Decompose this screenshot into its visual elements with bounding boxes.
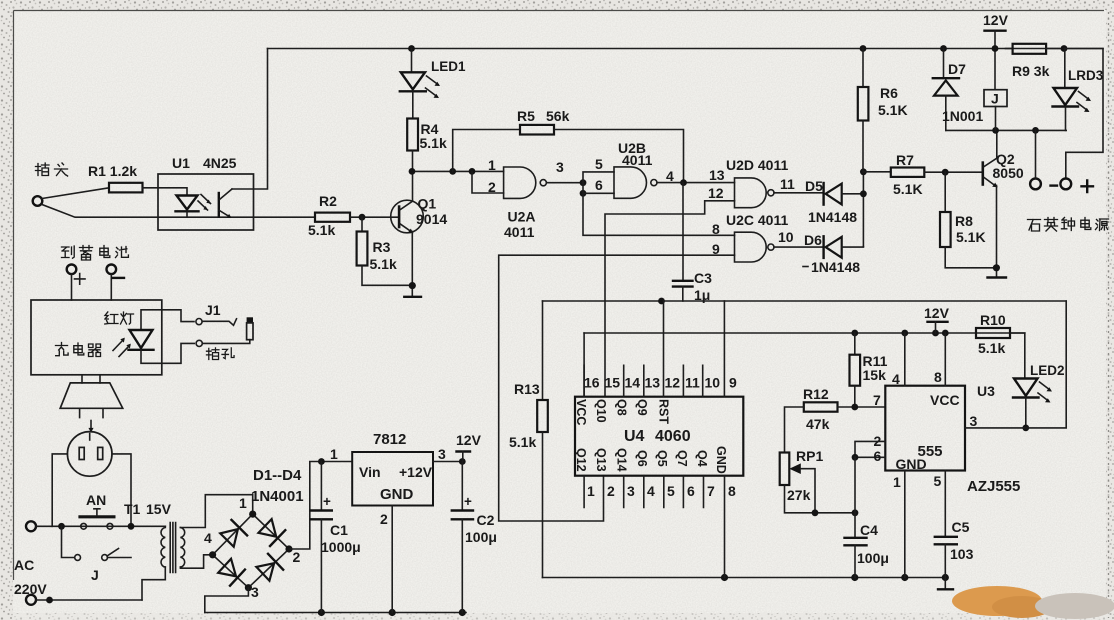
svg-text:4060: 4060 bbox=[655, 428, 691, 445]
ground rail PSU bbox=[205, 609, 466, 616]
svg-text:5.1k: 5.1k bbox=[370, 256, 397, 272]
svg-text:16: 16 bbox=[584, 375, 600, 391]
svg-text:C4: C4 bbox=[860, 522, 878, 538]
wire 555 pin8 to rail bbox=[934, 333, 945, 386]
resistor R5 56k feedback bbox=[453, 108, 684, 182]
svg-text:J: J bbox=[91, 567, 99, 583]
svg-text:3: 3 bbox=[556, 159, 564, 175]
svg-text:Q5: Q5 bbox=[655, 450, 669, 467]
node D5 / R6 / R7 bbox=[860, 168, 867, 246]
svg-text:U4: U4 bbox=[624, 428, 645, 445]
svg-text:15k: 15k bbox=[863, 367, 887, 383]
svg-text:15V: 15V bbox=[146, 501, 172, 517]
svg-text:+: + bbox=[323, 494, 331, 509]
wire R3 bottom to emitter node bbox=[362, 266, 412, 286]
power 12V logic rail stub bbox=[924, 305, 950, 333]
resistor R12 bbox=[785, 386, 886, 453]
terminal - (quartz clock) bbox=[1030, 130, 1041, 189]
node Q1 collector / R4 / U2A input bbox=[409, 168, 504, 175]
svg-text:8: 8 bbox=[712, 221, 720, 237]
svg-text:AZJ555: AZJ555 bbox=[967, 478, 1020, 495]
svg-text:3: 3 bbox=[970, 413, 978, 429]
svg-text:10: 10 bbox=[705, 375, 721, 391]
ground tick rail end bbox=[938, 578, 953, 590]
svg-text:1N4148: 1N4148 bbox=[808, 209, 857, 225]
svg-text:J1: J1 bbox=[205, 302, 221, 318]
bridge rectifier D1-D4 1N4001 bbox=[204, 467, 304, 600]
wire VCC pin16 to 12V rail bbox=[583, 333, 585, 397]
wire Q1 emitter to ground bbox=[409, 232, 416, 296]
wire socket left to AC line bbox=[52, 454, 67, 526]
svg-text:100μ: 100μ bbox=[465, 529, 497, 545]
svg-text:U2C 4011: U2C 4011 bbox=[726, 212, 788, 228]
svg-text:Q10: Q10 bbox=[594, 399, 608, 423]
terminal + (quartz clock) bbox=[1060, 179, 1071, 190]
wire Q1 collector to node bbox=[412, 171, 414, 201]
svg-text:47k: 47k bbox=[806, 416, 830, 432]
wire R1 to U1 LED anode bbox=[143, 188, 188, 196]
svg-text:1: 1 bbox=[239, 495, 247, 511]
svg-text:D1--D4: D1--D4 bbox=[253, 467, 302, 484]
label AC 220V bbox=[14, 557, 47, 597]
svg-text:5.1k: 5.1k bbox=[308, 222, 335, 238]
svg-text:1: 1 bbox=[488, 157, 496, 173]
svg-text:3: 3 bbox=[438, 446, 446, 462]
svg-text:5.1K: 5.1K bbox=[956, 229, 986, 245]
IC U4 4060 bbox=[575, 397, 743, 476]
svg-text:AN: AN bbox=[86, 492, 106, 508]
svg-text:R5: R5 bbox=[517, 108, 535, 124]
svg-text:13: 13 bbox=[709, 167, 725, 183]
wire 555 pin7 node bbox=[873, 392, 881, 408]
svg-text:6: 6 bbox=[687, 483, 695, 499]
wire U2D pin12 from U4 Q10 bbox=[605, 201, 735, 397]
svg-text:Q6: Q6 bbox=[635, 450, 649, 467]
svg-text:4: 4 bbox=[892, 371, 900, 387]
svg-text:5.1k: 5.1k bbox=[509, 434, 536, 450]
wire socket right to AC line bbox=[112, 454, 131, 526]
svg-text:Q8: Q8 bbox=[615, 399, 629, 416]
switch J1 contacts bbox=[196, 302, 237, 347]
relay contact J bbox=[62, 526, 132, 583]
svg-text:5.1k: 5.1k bbox=[420, 135, 447, 151]
svg-text:10: 10 bbox=[778, 229, 794, 245]
svg-text:GND: GND bbox=[896, 456, 927, 472]
charger box 充电器 bbox=[31, 300, 162, 375]
wire R2 to Q1 base bbox=[350, 214, 398, 221]
capacitor C3 1u bbox=[673, 183, 712, 303]
minus mark bbox=[1051, 184, 1058, 186]
svg-text:GND: GND bbox=[380, 486, 414, 503]
resistor R7 bbox=[863, 152, 981, 197]
wire 555 pin1 to ground rail bbox=[893, 471, 905, 578]
terminal battery + bbox=[67, 265, 85, 301]
svg-text:5.1k: 5.1k bbox=[978, 340, 1005, 356]
svg-text:R8: R8 bbox=[955, 213, 973, 229]
svg-text:Q12: Q12 bbox=[574, 448, 588, 472]
capacitor C4 100u bbox=[845, 513, 889, 578]
svg-text:RP1: RP1 bbox=[796, 448, 823, 464]
opto-coupler U1 4N25 bbox=[158, 155, 254, 230]
svg-text:4N25: 4N25 bbox=[203, 155, 237, 171]
svg-text:+12V: +12V bbox=[399, 464, 433, 480]
svg-text:4: 4 bbox=[647, 483, 655, 499]
wire AC line to T1 bbox=[36, 523, 165, 530]
resistor R9 3k bbox=[1006, 44, 1068, 79]
op-amp U2B 4011 NAND bbox=[595, 140, 674, 198]
terminal battery - bbox=[107, 265, 125, 301]
capacitor C5 103 bbox=[934, 471, 974, 578]
svg-text:R10: R10 bbox=[980, 312, 1006, 328]
wire U1 collector to top rail bbox=[232, 49, 268, 190]
svg-text:1N4148: 1N4148 bbox=[811, 259, 860, 275]
resistor R2 bbox=[308, 193, 350, 238]
svg-text:1N4001: 1N4001 bbox=[251, 488, 304, 505]
plug-to-socket arrow bbox=[88, 421, 93, 433]
wire bridge output 2 to +12V unregulated bbox=[289, 458, 352, 549]
svg-text:RST: RST bbox=[657, 399, 671, 424]
wire Q2 emitter to ground bbox=[993, 186, 1000, 277]
wire U2A pin2 jog bbox=[472, 171, 504, 193]
svg-text:12V: 12V bbox=[983, 12, 1009, 28]
terminal AC lower bbox=[26, 595, 36, 605]
IC U3 555 bbox=[885, 383, 1020, 495]
svg-text:8050: 8050 bbox=[993, 165, 1024, 181]
svg-text:6: 6 bbox=[595, 177, 603, 193]
capacitor C2 100u bbox=[452, 462, 497, 613]
svg-text:D6: D6 bbox=[804, 232, 822, 248]
wire 555 pins 2,6 tie bbox=[852, 433, 886, 513]
wire plug lower to R2 bbox=[42, 205, 315, 218]
svg-text:5.1K: 5.1K bbox=[878, 102, 908, 118]
resistor R11 bbox=[850, 333, 888, 407]
svg-text:C2: C2 bbox=[477, 512, 495, 528]
wire U2C output to D6 bbox=[774, 246, 822, 248]
svg-text:4011: 4011 bbox=[622, 152, 653, 168]
regulator 7812 bbox=[330, 431, 446, 527]
U4 top pin stubs bbox=[584, 365, 703, 396]
label 石英钟电源 (quartz clock power) bbox=[1028, 218, 1109, 232]
relay J box bbox=[984, 90, 1007, 131]
svg-text:LRD3: LRD3 bbox=[1068, 68, 1104, 83]
bottom-right scan stain bbox=[952, 586, 1114, 619]
svg-text:R3: R3 bbox=[373, 239, 391, 255]
wire T1 secondary top to bridge input 1 bbox=[180, 495, 252, 528]
svg-text:Q4: Q4 bbox=[695, 450, 709, 467]
wire bridge 3 to ground rail bbox=[205, 588, 249, 613]
power 12V at 7812 output bbox=[456, 432, 482, 462]
transistor Q2 8050 bbox=[982, 151, 1024, 187]
svg-text:AC: AC bbox=[14, 557, 34, 573]
mains plug of charger bbox=[60, 375, 122, 418]
wire 7812 GND pin2 to rail bbox=[391, 506, 393, 613]
svg-text:12: 12 bbox=[665, 375, 681, 391]
svg-text:1: 1 bbox=[330, 446, 338, 462]
diode D7 1N001 bbox=[933, 45, 984, 130]
wire U2D output to D5 bbox=[774, 192, 822, 194]
diode D5 1N4148 bbox=[805, 178, 863, 225]
svg-text:Q14: Q14 bbox=[615, 448, 629, 472]
svg-text:9014: 9014 bbox=[416, 211, 447, 227]
svg-text:Q13: Q13 bbox=[594, 448, 608, 472]
relay coil line (node) bbox=[946, 127, 1066, 134]
resistor R6 bbox=[858, 45, 908, 172]
LED1 bbox=[400, 45, 466, 118]
svg-text:Q9: Q9 bbox=[635, 399, 649, 416]
wire U2B output to U2D pin13 bbox=[657, 179, 735, 186]
svg-text:15: 15 bbox=[605, 375, 621, 391]
ground rail logic bbox=[543, 574, 949, 581]
svg-text:7: 7 bbox=[707, 483, 715, 499]
svg-text:R9 3k: R9 3k bbox=[1012, 63, 1050, 79]
wire T1 secondary bottom to bridge corner 4 bbox=[180, 555, 212, 568]
svg-text:27k: 27k bbox=[787, 487, 811, 503]
svg-text:13: 13 bbox=[645, 375, 661, 391]
svg-text:7812: 7812 bbox=[373, 431, 406, 448]
resistor R10 bbox=[976, 312, 1025, 378]
svg-text:VCC: VCC bbox=[574, 399, 588, 425]
svg-text:14: 14 bbox=[625, 375, 641, 391]
wire T1 primary bottom to AC lower line bbox=[142, 567, 165, 600]
LED2 bbox=[1013, 363, 1065, 431]
svg-text:5: 5 bbox=[595, 156, 603, 172]
label 插孔 (jack socket) bbox=[206, 348, 234, 360]
svg-text:LED1: LED1 bbox=[431, 59, 466, 74]
wire 7812 pin3 to 12V bbox=[433, 458, 466, 465]
svg-text:R6: R6 bbox=[880, 85, 898, 101]
svg-text:C1: C1 bbox=[330, 522, 348, 538]
svg-text:U2A: U2A bbox=[508, 209, 536, 225]
svg-text:8: 8 bbox=[934, 369, 942, 385]
svg-text:4011: 4011 bbox=[504, 224, 535, 240]
svg-text:R7: R7 bbox=[896, 152, 914, 168]
terminal plug-in bbox=[33, 196, 43, 206]
svg-text:2: 2 bbox=[607, 483, 615, 499]
svg-text:4: 4 bbox=[666, 168, 674, 184]
wire U4 pin9 to reset line bbox=[723, 301, 725, 397]
node reset line (555 out / RST / C3 / R13) bbox=[543, 298, 1067, 305]
svg-text:J: J bbox=[991, 91, 999, 107]
U4 top pin names rotated bbox=[574, 399, 671, 425]
svg-text:2: 2 bbox=[380, 511, 388, 527]
diode D6 1N4148 bbox=[803, 232, 863, 275]
svg-text:9: 9 bbox=[729, 375, 737, 391]
terminal AC upper bbox=[26, 521, 36, 531]
potentiometer RP1 27k bbox=[780, 448, 859, 516]
U4 bottom pin numbers bbox=[587, 483, 736, 499]
wire plug upper to R1 bbox=[42, 188, 109, 199]
wire rail right end to + terminal bbox=[1064, 49, 1103, 179]
rail 12V logic bbox=[584, 330, 1025, 337]
wire U2A output node bbox=[546, 179, 586, 196]
resistor R13 bbox=[509, 301, 548, 578]
svg-text:12: 12 bbox=[708, 185, 724, 201]
svg-text:6: 6 bbox=[874, 448, 882, 464]
svg-text:+: + bbox=[464, 494, 472, 509]
svg-text:12V: 12V bbox=[924, 305, 950, 321]
svg-text:11: 11 bbox=[780, 176, 795, 192]
wire U4 pin8 GND to rail bbox=[724, 476, 726, 578]
resistor R3 bbox=[357, 217, 397, 272]
ground Q2 bbox=[988, 276, 1007, 278]
ground Q1 bbox=[404, 296, 421, 298]
jack plug symbol bbox=[202, 317, 253, 343]
svg-text:D5: D5 bbox=[805, 178, 823, 194]
svg-text:100μ: 100μ bbox=[857, 550, 889, 566]
svg-text:R2: R2 bbox=[319, 193, 337, 209]
svg-text:D7: D7 bbox=[948, 61, 966, 77]
svg-text:Q1: Q1 bbox=[418, 196, 437, 212]
svg-text:5: 5 bbox=[934, 473, 942, 489]
label 插头 (plug) bbox=[36, 163, 68, 176]
svg-text:R12: R12 bbox=[803, 386, 829, 402]
wire 555 pin4 to rail bbox=[892, 333, 905, 387]
wire node down to U2C pin8 bbox=[583, 183, 735, 236]
svg-text:GND: GND bbox=[714, 446, 728, 474]
svg-text:8: 8 bbox=[728, 483, 736, 499]
top rail +12V bbox=[268, 48, 1104, 50]
svg-text:220V: 220V bbox=[14, 581, 47, 597]
capacitor C1 1000u bbox=[311, 462, 361, 613]
label 到蓄电池 (to storage battery) bbox=[62, 246, 129, 261]
svg-text:R13: R13 bbox=[514, 381, 540, 397]
svg-text:7: 7 bbox=[873, 392, 881, 408]
wall socket bbox=[67, 432, 112, 477]
svg-text:U3: U3 bbox=[977, 383, 995, 399]
power 12V top bbox=[983, 12, 1009, 90]
svg-text:1N001: 1N001 bbox=[942, 108, 983, 124]
svg-text:3: 3 bbox=[251, 584, 259, 600]
op-amp U2D 4011 NAND bbox=[708, 157, 795, 208]
svg-text:U1: U1 bbox=[172, 155, 190, 171]
svg-text:2: 2 bbox=[874, 433, 882, 449]
svg-text:1: 1 bbox=[587, 483, 595, 499]
U4 bottom pin stubs bbox=[584, 476, 703, 508]
svg-text:LED2: LED2 bbox=[1030, 363, 1065, 378]
svg-text:U2D 4011: U2D 4011 bbox=[726, 157, 788, 173]
svg-text:C3: C3 bbox=[694, 270, 712, 286]
svg-text:1000μ: 1000μ bbox=[321, 539, 361, 555]
svg-text:R1 1.2k: R1 1.2k bbox=[88, 163, 137, 179]
resistor R8 bbox=[940, 172, 996, 268]
svg-text:56k: 56k bbox=[546, 108, 570, 124]
svg-text:3: 3 bbox=[627, 483, 635, 499]
svg-text:2: 2 bbox=[293, 549, 301, 565]
svg-text:4: 4 bbox=[204, 530, 212, 546]
pushbutton AN bbox=[78, 492, 115, 529]
svg-text:Q7: Q7 bbox=[675, 450, 689, 467]
svg-text:VCC: VCC bbox=[930, 392, 960, 408]
wire 555 pin3 output bbox=[965, 301, 1066, 429]
wire Q2 collector to relay line bbox=[996, 130, 998, 158]
U4 top pin numbers bbox=[584, 375, 737, 391]
wire AC lower line bbox=[36, 597, 142, 604]
resistor R4 bbox=[407, 119, 447, 172]
LED red light inside charger bbox=[113, 310, 194, 364]
wire U2C pin9 from U4 Q13 bbox=[499, 255, 735, 521]
transformer T1 15V bbox=[124, 501, 185, 573]
svg-text:12V: 12V bbox=[456, 432, 482, 448]
svg-text:Vin: Vin bbox=[359, 464, 381, 480]
transistor Q1 9014 bbox=[391, 196, 448, 234]
svg-text:5: 5 bbox=[667, 483, 675, 499]
op-amp U2C 4011 NAND bbox=[712, 212, 794, 262]
op-amp U2A 4011 NAND bbox=[488, 157, 564, 240]
svg-text:T1: T1 bbox=[124, 501, 141, 517]
svg-text:C5: C5 bbox=[952, 519, 970, 535]
wire node to U2B pins 5,6 bbox=[583, 172, 614, 193]
svg-text:103: 103 bbox=[950, 546, 974, 562]
U4 bottom pin names rotated bbox=[574, 446, 728, 474]
plus mark bbox=[1082, 181, 1094, 193]
resistor R1 bbox=[88, 163, 143, 192]
wire U4 pin12 RST to reset line bbox=[663, 301, 665, 397]
svg-text:1: 1 bbox=[893, 474, 901, 490]
svg-text:11: 11 bbox=[685, 375, 700, 391]
svg-text:5.1K: 5.1K bbox=[893, 181, 923, 197]
LED LRD3 bbox=[1053, 49, 1104, 131]
